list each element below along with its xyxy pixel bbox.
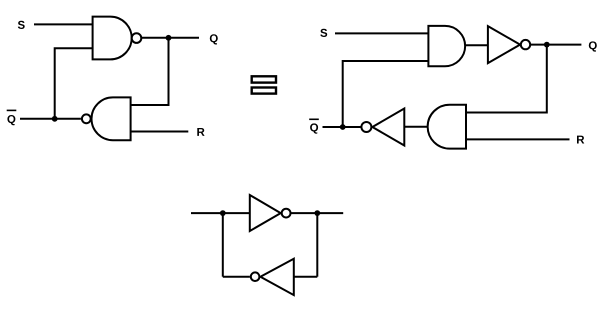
- wire U1 output to Q: [141, 37, 199, 39]
- inverter U8 bubble: [251, 272, 260, 281]
- wire U2 bottom input to R: [131, 131, 189, 133]
- wire U5 output to inverter U6: [404, 126, 428, 128]
- wire S to AND U3: [335, 32, 428, 34]
- wire U5 bottom input to R: [466, 138, 570, 140]
- node left junction dot (loop): [220, 210, 226, 216]
- wire feedback Qbar up to U3 bottom input: [343, 61, 429, 127]
- label Q (right circuit): [589, 41, 597, 51]
- node Qbar junction dot (right circuit): [340, 124, 346, 130]
- label Qbar (left circuit): [7, 110, 17, 126]
- nand-gate U2 bubble: [82, 114, 91, 123]
- label S (left circuit): [18, 21, 25, 29]
- inverter U8 triangle (pointing left): [260, 259, 293, 295]
- inverter U6 triangle (pointing left): [372, 109, 404, 146]
- and-gate U3 body: [428, 26, 465, 66]
- wire bottom rail right segment: [294, 276, 318, 278]
- label R (left circuit): [197, 128, 204, 136]
- equivalence symbol top bar: [252, 76, 276, 82]
- label Q (left circuit): [210, 34, 218, 44]
- label S (right circuit): [320, 29, 327, 37]
- inverter U7 triangle: [250, 195, 281, 231]
- wire U4 output to Q: [530, 44, 581, 46]
- node Qbar junction dot (left circuit): [52, 116, 58, 122]
- label R (right circuit): [577, 136, 584, 144]
- inverter U4 triangle: [488, 26, 520, 63]
- wire S to NAND U1: [34, 23, 93, 25]
- inverter U6 bubble: [361, 122, 371, 132]
- wire U2 output to Qbar: [20, 118, 81, 120]
- wire feedback Q down to U5 top input: [466, 45, 547, 113]
- wire U6 output to Qbar: [323, 126, 362, 128]
- nand-gate U2 body (mirrored): [92, 97, 131, 140]
- and-gate U5 body (mirrored): [428, 105, 466, 149]
- inverter U7 bubble: [282, 209, 291, 218]
- wire left vertical of loop: [222, 213, 224, 277]
- nand-gate U1 bubble: [132, 33, 142, 43]
- equivalence symbol bottom bar: [252, 88, 276, 94]
- wire right vertical of loop: [316, 213, 318, 277]
- wire feedback Qbar up to U1 bottom input: [55, 48, 93, 119]
- node right junction dot (loop): [314, 210, 320, 216]
- wire top rail of inverter loop: [191, 212, 343, 214]
- wire U3 output to inverter U4: [465, 44, 488, 46]
- node Q junction dot (left circuit): [166, 35, 172, 41]
- label Qbar (right circuit): [309, 119, 319, 134]
- inverter U4 bubble: [521, 40, 530, 49]
- wire feedback Q down to U2 top input: [131, 38, 169, 105]
- nand-gate U1 body: [93, 17, 132, 60]
- wire bottom rail left segment: [223, 276, 250, 278]
- node Q junction dot (right circuit): [544, 42, 550, 48]
